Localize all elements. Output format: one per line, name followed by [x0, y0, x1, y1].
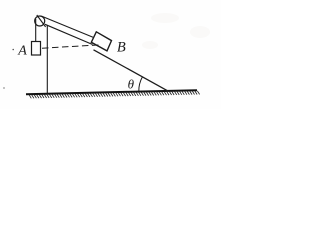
ground hatching — [29, 91, 200, 99]
rope to B — [42, 16, 94, 37]
ground line — [26, 90, 197, 94]
incline hypotenuse lower segment — [94, 50, 168, 91]
dot left of A — [12, 49, 14, 51]
svg-text:A: A — [17, 43, 27, 58]
dashed line A to B — [42, 45, 101, 48]
incline hypotenuse upper segment — [45, 24, 93, 44]
svg-text:B: B — [117, 40, 126, 56]
angle arc — [139, 77, 143, 92]
pulley — [35, 16, 45, 26]
vertical post (left leg of incline) — [46, 25, 48, 94]
block B — [91, 32, 111, 51]
faint page bleed-through smudges top right — [142, 13, 210, 49]
pulley bracket — [37, 15, 46, 27]
svg-text:θ: θ — [128, 76, 135, 91]
rope to A — [35, 19, 37, 42]
speck bottom left — [3, 87, 5, 89]
block A — [32, 42, 41, 56]
